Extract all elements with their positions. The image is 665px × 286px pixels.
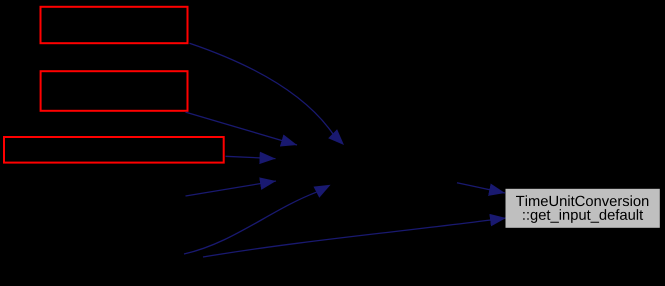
- wire: edge from middle red node: [186, 112, 298, 145]
- node box (red, truncated) top-left: [41, 7, 188, 43]
- arrowhead of top curved edge: [328, 129, 344, 145]
- node TimeUnitConversion::get_input_default (current, gray): [506, 189, 660, 228]
- label text "TimeUnitConversion" (vector outlines): [516, 195, 648, 206]
- wire: edge from top red node (curved): [190, 43, 334, 134]
- wire: edge from hidden node A: [186, 181, 277, 196]
- wire: edge from wide red node: [226, 156, 276, 158]
- label text "::get_input_default" (vector outlines): [523, 209, 643, 223]
- node box (red, truncated) middle-left: [41, 71, 188, 111]
- wire: short edge into TimeUnitConversion::get_input_default: [457, 183, 505, 193]
- wire: long lower edge into TimeUnitConversion::get_input_default: [203, 218, 506, 257]
- arrowhead of rising edge: [314, 185, 331, 198]
- wire: rising edge from hidden node B (curved): [184, 192, 316, 254]
- node box (red, truncated) wide lower-left: [4, 137, 224, 163]
